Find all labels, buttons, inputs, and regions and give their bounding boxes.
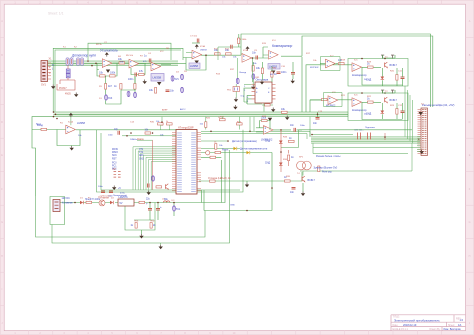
zener D3: [181, 74, 184, 80]
wire left drop to power section: [32, 117, 66, 196]
svg-text:+: +: [160, 205, 162, 209]
capacitor C10: [114, 129, 120, 135]
ground connector: [419, 112, 424, 154]
wire box comparator 2: [348, 93, 408, 121]
component R40 below line34: [238, 34, 240, 47]
resistor R18: [362, 98, 381, 104]
resistor R29: [208, 178, 231, 182]
svg-text:OK1: OK1: [255, 77, 260, 79]
svg-text:Понижающий: Понижающий: [113, 194, 128, 197]
ground divider 2: [233, 96, 245, 110]
wire power bottom lines: [36, 150, 230, 243]
svg-text:Огр.: Огр.: [241, 96, 246, 98]
svg-text:5V1: 5V1: [176, 208, 181, 211]
optocoupler OC1: [66, 69, 70, 78]
wire box T2: [324, 93, 343, 107]
op-amp T1 buffer: [320, 59, 338, 68]
resistor R7 vertical: [149, 88, 157, 94]
svg-text:R2 1k: R2 1k: [96, 44, 103, 46]
varistor RV1: [227, 87, 240, 92]
capacitor C8: [401, 68, 405, 86]
transistor Q4: [206, 151, 210, 155]
svg-text:+: +: [146, 202, 148, 206]
op-amp U4 comparator: [269, 44, 293, 59]
zener D12 extra: [99, 86, 130, 100]
svg-text:Разъём больш. платы: Разъём больш. платы: [316, 155, 341, 158]
wire U3A feedback loop: [186, 53, 206, 71]
wire U1B feedback: [121, 64, 145, 90]
wire ribbon lower nets: [310, 117, 417, 154]
ground U6: [70, 146, 74, 151]
resistor R8: [214, 49, 220, 55]
wire power rail: [60, 150, 225, 203]
power flag vcc K2b: [391, 90, 394, 93]
text power labels: [95, 199, 169, 201]
capacitor C5: [252, 52, 258, 60]
junction U3A out: [205, 54, 207, 56]
wire box buzzer section: [281, 130, 412, 148]
svg-text:XT2: XT2: [139, 152, 144, 154]
diode D10: [110, 201, 113, 204]
ground U3B: [251, 62, 255, 90]
op-amp U3B: [242, 54, 252, 63]
ic U5 optocoupler dip: [252, 78, 276, 104]
resistor R9: [225, 49, 231, 55]
resistor R25: [210, 156, 216, 158]
svg-text:100u: 100u: [95, 199, 101, 201]
wire power sub box: [125, 203, 155, 231]
svg-text:D: D: [1, 121, 3, 124]
led LED4: [265, 162, 283, 166]
text designators top row: [60, 36, 424, 223]
wire buzzer box bottom: [300, 143, 412, 175]
svg-text:Зуммер (Buzzer 5V): Зуммер (Buzzer 5V): [314, 166, 338, 170]
resistor R11 vertical above U5: [271, 66, 278, 82]
wire ribbon risers: [405, 86, 413, 143]
svg-text:Подтяжка: Подтяжка: [365, 127, 376, 129]
ground mid net: [245, 181, 249, 187]
junction led col: [280, 151, 282, 153]
junction band corner: [53, 111, 58, 119]
resistor R17 vertical: [396, 68, 398, 86]
wire power box input: [50, 197, 65, 225]
ic box U2 label: [151, 74, 164, 82]
diode D9: [80, 201, 83, 204]
wire U1A feedback: [97, 63, 117, 76]
resistor R41 stack: [134, 76, 137, 98]
resistor R24: [215, 149, 229, 154]
capacitor C15: [290, 125, 296, 132]
svg-text:PC0: PC0: [112, 163, 117, 165]
resistor R5: [139, 70, 145, 76]
text net labels mcu left: [112, 149, 144, 171]
svg-text:Reset: Reset: [222, 149, 229, 152]
svg-text:Sheet: 1/1: Sheet: 1/1: [48, 12, 64, 16]
led LED1: [366, 68, 384, 86]
buzzer SP1: [297, 161, 338, 170]
svg-text:Sheet:: Sheet:: [448, 324, 455, 327]
svg-text:SCK: SCK: [112, 155, 117, 157]
resistor R46 above mcu: [156, 121, 163, 130]
zener D4 oval: [181, 87, 184, 93]
ground isp: [112, 186, 121, 191]
power flag vcc U3A: [195, 44, 199, 48]
text band labels: [162, 108, 186, 112]
ground R9: [217, 55, 219, 60]
wire led column: [281, 130, 289, 172]
svg-text:Детектор нуля: Детектор нуля: [71, 54, 96, 58]
resistor R43 below band: [200, 117, 207, 130]
wire ribbon upper nets: [201, 131, 353, 139]
power flag vee U3A: [195, 61, 199, 64]
resistor R33 vertical: [131, 223, 138, 229]
svg-text:BC817: BC817: [308, 179, 316, 182]
svg-text:Вход: Вход: [36, 124, 42, 126]
svg-text:Drawn By:: Drawn By:: [430, 328, 441, 331]
capacitor C1: [128, 73, 137, 82]
transistor Q6: [99, 200, 105, 206]
text bracket PC817: [57, 84, 75, 96]
svg-text:1/1: 1/1: [458, 323, 462, 327]
resistor R14: [338, 59, 344, 65]
text title block contents: [393, 316, 464, 332]
svg-text:G: G: [1, 221, 3, 224]
resistor R19 vertical: [396, 103, 398, 119]
op-amp U6: [66, 121, 86, 134]
divider chain D13: [236, 58, 246, 84]
junction box top: [130, 132, 153, 134]
resistor R45 below band: [237, 117, 243, 130]
wire opamp D feedback: [57, 130, 176, 146]
svg-text:LM358: LM358: [153, 76, 162, 80]
resistor R31: [85, 199, 92, 204]
resistor R3 vertical: [105, 84, 113, 90]
wire box T1: [321, 57, 341, 71]
svg-text:GND: GND: [230, 205, 235, 207]
wire box comparator 1: [348, 59, 408, 87]
op-amp U1A: [100, 49, 118, 68]
svg-text:Реле упр.: Реле упр.: [322, 172, 333, 174]
svg-text:10n: 10n: [290, 191, 295, 194]
power flag vcc K1a: [381, 55, 384, 58]
led LED3: [265, 140, 283, 144]
diode D7: [234, 147, 268, 151]
svg-text:Компаратор: Компаратор: [272, 44, 292, 48]
svg-text:4k7: 4k7: [108, 85, 113, 88]
capacitor C22 opampB loop: [218, 45, 241, 56]
svg-text:100n: 100n: [98, 186, 104, 188]
wire inner box top: [88, 43, 171, 60]
svg-text:1.0: 1.0: [460, 318, 464, 322]
junction band A dots: [87, 60, 97, 66]
junction U9 out: [280, 129, 282, 131]
resistor R39 stack: [260, 62, 264, 85]
svg-text:4N35: 4N35: [65, 93, 71, 96]
svg-text:16MHz: 16MHz: [130, 139, 137, 141]
ground U5: [271, 108, 275, 113]
wire band risers right: [302, 57, 352, 112]
wire red column: [152, 140, 154, 190]
svg-text:СИД: СИД: [265, 140, 270, 143]
wire red stub c20: [384, 133, 386, 140]
capacitor C7 band: [313, 112, 320, 125]
svg-text:100n: 100n: [300, 125, 306, 127]
svg-text:PC1: PC1: [112, 166, 117, 168]
relay K1 coil pair: [66, 58, 73, 66]
svg-text:Инж. Викторов: Инж. Викторов: [444, 328, 462, 331]
resistor R22: [156, 186, 162, 188]
power flag vcc U1A: [105, 52, 109, 56]
junction box1 top dots: [361, 58, 386, 94]
resistor R44 below band: [218, 117, 225, 121]
svg-text:XT1: XT1: [139, 149, 144, 151]
power flag vcc K1b: [391, 55, 394, 58]
capacitor C4 above U3A: [192, 39, 200, 44]
svg-text:R5 10k: R5 10k: [126, 55, 134, 57]
svg-text:AREF: AREF: [162, 109, 168, 112]
wire U5 feeds: [252, 57, 264, 111]
capacitor C12: [290, 188, 296, 195]
svg-text:LM358: LM358: [77, 121, 85, 125]
zener D1: [105, 95, 113, 101]
resistor R26: [289, 137, 295, 143]
svg-text:Date:: Date:: [393, 324, 399, 327]
svg-text:ARF: ARF: [139, 154, 144, 157]
svg-text:IC3A: IC3A: [200, 45, 205, 48]
svg-text:Компаратор: Компаратор: [352, 108, 367, 112]
capacitor C20 pullup: [365, 127, 376, 140]
svg-text:N: N: [52, 64, 54, 67]
svg-text:G: G: [469, 221, 471, 224]
svg-text:Отладка (LED+R), 1k: Отладка (LED+R), 1k: [208, 178, 231, 180]
junction band right: [317, 114, 319, 116]
svg-text:100n: 100n: [108, 135, 114, 137]
svg-text:Питание: Питание: [102, 196, 111, 198]
ic label U4: [268, 64, 280, 70]
capacitor C11: [148, 184, 150, 188]
wire section box outer top-left: [53, 48, 183, 112]
svg-text:100n: 100n: [281, 71, 287, 74]
text label osc: [137, 138, 145, 141]
svg-text:Кварц: Кварц: [137, 138, 145, 141]
svg-text:PC817: PC817: [59, 87, 67, 90]
wire section box mcu outer: [97, 130, 244, 192]
svg-text:C: C: [469, 87, 471, 90]
text label power bottom: [98, 196, 109, 200]
capacitor C9: [401, 103, 405, 119]
svg-text:C: C: [1, 87, 3, 90]
op-amp U3A: [192, 50, 202, 59]
svg-text:5V1: 5V1: [175, 78, 180, 81]
capacitor C2: [144, 55, 151, 63]
svg-text:RST: RST: [112, 158, 117, 160]
svg-text:100n: 100n: [128, 78, 134, 81]
svg-text:H: H: [1, 255, 3, 258]
svg-text:ATmega328P: ATmega328P: [178, 126, 194, 130]
wire U4 in loop: [263, 47, 269, 58]
text J1 pin labels: [49, 66, 51, 75]
capacitor C19 pullup: [354, 130, 364, 140]
power flag vcc K2a: [381, 90, 384, 93]
svg-text:D: D: [469, 121, 471, 124]
ground divider 1: [234, 84, 238, 102]
svg-text:Клеммник: Клеммник: [62, 203, 74, 205]
capacitor C13 electrolytic: [146, 202, 152, 221]
svg-text:100u: 100u: [90, 199, 96, 201]
resistor R10 vertical: [252, 66, 261, 72]
resistor R34 vertical: [150, 223, 156, 229]
svg-text:H: H: [469, 255, 471, 258]
inductor L1: [164, 201, 170, 203]
svg-text:СИД: СИД: [265, 162, 270, 165]
svg-text:MISO: MISO: [112, 152, 118, 154]
ground U1B: [143, 80, 147, 85]
ic labels U5 left pins: [244, 95, 262, 104]
svg-text:10n: 10n: [170, 90, 175, 93]
svg-text:SV1: SV1: [41, 83, 46, 87]
op-amp U9 current sense: [261, 118, 273, 142]
resistor R1: [99, 72, 105, 78]
svg-text:Разъём шлейфа (34, +5V): Разъём шлейфа (34, +5V): [422, 103, 455, 107]
diode D8: [247, 151, 250, 154]
wire mcu aux left: [122, 135, 176, 140]
text blue value labels extra: [36, 50, 368, 207]
transistor Q5: [302, 176, 315, 182]
op-amp U2A: [151, 62, 161, 71]
capacitor C14 electrolytic: [156, 203, 162, 221]
resistor R21: [145, 130, 151, 135]
svg-text:2018-02-19: 2018-02-19: [403, 323, 417, 327]
wire signal chain: [112, 55, 302, 64]
svg-text:IC3B: IC3B: [243, 50, 248, 52]
relay K2 coil pair: [71, 54, 96, 66]
wire long bottom net: [199, 153, 302, 211]
wire top run to connector: [241, 34, 433, 107]
svg-text:Выход: Выход: [240, 72, 247, 74]
text label psu blue: [62, 194, 128, 205]
title block: [391, 315, 466, 331]
ground opto2: [74, 93, 78, 98]
wire mcu right nets: [201, 141, 272, 157]
text label lower net: [316, 155, 341, 158]
svg-text:IC1A: IC1A: [68, 121, 73, 124]
op-amp K1: [352, 63, 367, 77]
power flag vee U4: [271, 71, 275, 74]
junction row141: [227, 140, 257, 143]
capacitor C16: [98, 186, 105, 193]
power flag vcc U6: [69, 113, 73, 125]
wire band taps: [161, 117, 254, 132]
zener D11: [173, 203, 181, 217]
svg-text:MOSI: MOSI: [112, 149, 118, 151]
connector ISP header: [112, 168, 121, 177]
resistor R12: [262, 104, 273, 106]
ground Q5: [301, 183, 305, 196]
zener D6 reset: [152, 176, 155, 182]
resistor R16: [362, 63, 381, 69]
power flag vcc U3B: [246, 46, 250, 50]
svg-text:BC817: BC817: [390, 99, 398, 102]
svg-text:3V3: 3V3: [108, 97, 113, 100]
resistor R42 hang: [318, 166, 333, 174]
svg-text:LM358: LM358: [200, 50, 207, 52]
resistor R32: [139, 201, 145, 203]
capacitor C18 hang: [291, 62, 296, 84]
wire U5 left nets: [244, 85, 252, 105]
resistor R4: [118, 58, 125, 64]
transistor Q1: [385, 62, 398, 68]
svg-text:Датчик напряжения сети: Датчик напряжения сети: [240, 148, 268, 151]
wire mcu left fan: [133, 147, 176, 190]
wire ribbon to pins: [417, 137, 421, 152]
svg-text:C7 10n: C7 10n: [190, 36, 198, 38]
capacitor C3: [166, 90, 175, 93]
resistor R13: [281, 108, 287, 113]
ic label U3: [189, 63, 200, 69]
resistor R2: [110, 72, 116, 78]
ground R13: [285, 116, 289, 121]
svg-text:BC817: BC817: [390, 64, 398, 67]
power flag vee U1A: [106, 70, 110, 73]
op-amp U1B: [129, 59, 139, 68]
text net labels L N: [52, 64, 54, 71]
svg-text:Датчик (опторазвязка): Датчик (опторазвязка): [232, 140, 257, 143]
svg-text:10n: 10n: [313, 122, 318, 125]
svg-text:MCP602: MCP602: [310, 67, 319, 69]
svg-text:12V DC: 12V DC: [62, 197, 71, 200]
svg-text:5V: 5V: [120, 202, 123, 205]
ground mcu cluster: [147, 191, 151, 196]
ground power: [139, 230, 143, 239]
wire U9 connections: [256, 121, 302, 133]
svg-text:MCP602: MCP602: [326, 105, 336, 108]
svg-text:Компаратор: Компаратор: [352, 73, 367, 77]
resistor R15: [310, 99, 327, 101]
svg-text:AVCC: AVCC: [180, 108, 186, 111]
op-amp K2: [352, 98, 367, 112]
connector X2 ribbon: [418, 103, 455, 156]
ground opto1: [51, 85, 55, 90]
connector J1 input: [41, 58, 52, 87]
svg-text:EAGLE 15.1.1: EAGLE 15.1.1: [393, 328, 409, 331]
resistor R20 input: [37, 123, 47, 131]
resistor R27 vertical: [288, 155, 295, 161]
text U5 pin labels: [256, 87, 270, 94]
svg-text:Усилитель: Усилитель: [100, 49, 118, 53]
wire K1 internals: [362, 55, 403, 85]
ic U8 regulator: [118, 196, 134, 206]
svg-text:LM358: LM358: [190, 64, 198, 68]
zener D2: [171, 76, 179, 82]
junction power rail: [74, 202, 175, 204]
wire K2 internals: [362, 90, 403, 120]
transistor Q3 reset: [166, 184, 169, 190]
zener D5: [252, 74, 255, 80]
bus band main horizontal: [54, 112, 349, 117]
resistor R6 vertical: [114, 84, 122, 90]
svg-text:Электрический преобразователь: Электрический преобразователь: [394, 318, 440, 322]
resistor R28: [284, 176, 290, 182]
led LED2: [366, 103, 384, 119]
resistor R23 vertical: [214, 142, 223, 150]
connector X3 power: [53, 197, 70, 212]
power flag vee U2A: [157, 82, 161, 85]
svg-text:100k: 100k: [110, 72, 116, 75]
svg-text:PC2: PC2: [112, 169, 117, 171]
wire R3 chain: [106, 76, 121, 104]
ground bottom center: [159, 243, 163, 249]
op-amp T2 buffer: [326, 96, 338, 108]
